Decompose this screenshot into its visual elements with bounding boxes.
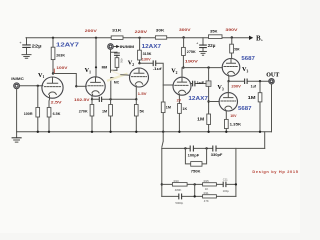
resistor 275K anode V2b xyxy=(182,38,196,68)
capacitor coupling at cathode xyxy=(92,97,136,101)
node SRPP feed xyxy=(207,66,209,131)
svg-text:100µ: 100µ xyxy=(223,189,230,193)
resistor 750K xyxy=(184,147,208,173)
resistor 30K on rail xyxy=(155,29,166,40)
svg-text:100V: 100V xyxy=(56,66,68,70)
svg-text:30K: 30K xyxy=(156,29,165,33)
wire feedback from output xyxy=(264,132,266,149)
svg-text:22µ: 22µ xyxy=(32,44,42,49)
capacitor MM input xyxy=(115,52,120,58)
svg-text:10V: 10V xyxy=(230,114,237,118)
svg-text:R11: R11 xyxy=(204,191,209,195)
node rows link xyxy=(194,184,196,197)
label 225V xyxy=(135,30,148,39)
svg-text:1uf: 1uf xyxy=(251,85,257,89)
node V1 grid xyxy=(37,85,39,87)
component box on divider xyxy=(206,81,211,87)
capacitor 100pF xyxy=(188,146,200,158)
resistor 270K xyxy=(79,99,94,132)
wire RIAA left leg xyxy=(161,148,163,196)
resistor 100R xyxy=(24,86,40,132)
wire V2b anode to V3a grid xyxy=(183,67,222,69)
svg-text:1.5V: 1.5V xyxy=(138,92,148,96)
svg-text:MC: MC xyxy=(114,80,120,84)
svg-text:1K: 1K xyxy=(182,107,187,111)
svg-text:750K: 750K xyxy=(191,169,201,174)
svg-text:1M: 1M xyxy=(248,95,257,100)
B+ arrow xyxy=(249,34,264,42)
wire V1b grid xyxy=(75,85,86,87)
capacitor C11 xyxy=(223,178,230,194)
svg-text:47K: 47K xyxy=(204,199,209,203)
tube V3b (5687 half) xyxy=(217,84,237,119)
wire RIAA row3 xyxy=(162,195,236,197)
svg-text:Design by Hp 2015: Design by Hp 2015 xyxy=(252,169,298,174)
node V2b anode xyxy=(182,66,185,77)
svg-text:225V: 225V xyxy=(135,30,148,34)
switch wiper highlight xyxy=(107,71,128,81)
svg-text:1uF: 1uF xyxy=(197,81,205,85)
ground xyxy=(12,132,21,142)
node rail junctions xyxy=(37,131,262,133)
capacitor 1uf output xyxy=(245,79,257,89)
resistor 1M V1 xyxy=(102,98,112,132)
svg-text:12AX7: 12AX7 xyxy=(188,96,208,102)
tube V3a (5687 half) xyxy=(222,59,248,82)
svg-text:480K: 480K xyxy=(175,188,182,192)
node V2a anode xyxy=(138,62,140,64)
svg-text:C11: C11 xyxy=(223,178,228,182)
svg-text:35K: 35K xyxy=(210,29,218,33)
svg-text:130V: 130V xyxy=(142,57,151,61)
capacitor 330pF xyxy=(211,146,223,157)
svg-text:270K: 270K xyxy=(79,110,88,114)
node 200V rail junction xyxy=(85,29,98,39)
resistor 315K xyxy=(138,38,152,63)
resistor R11 xyxy=(203,191,217,203)
svg-text:R10: R10 xyxy=(174,179,180,183)
wire OUT ground leg xyxy=(271,84,273,132)
svg-text:100pF: 100pF xyxy=(188,153,200,158)
svg-text:31K: 31K xyxy=(112,29,122,33)
wire RIAA row2 xyxy=(162,183,236,185)
svg-text:275K: 275K xyxy=(187,50,196,54)
node V1b cathode 102.5V xyxy=(74,98,93,102)
svg-text:50R: 50R xyxy=(234,47,240,51)
svg-text:263K: 263K xyxy=(56,54,65,58)
svg-text:300V: 300V xyxy=(179,28,191,32)
resistor 6.5K cathode V1a xyxy=(47,108,61,132)
svg-text:.1uf: .1uf xyxy=(153,67,163,71)
wire MC jack to V1 grid xyxy=(20,85,43,87)
output jack OUT xyxy=(266,72,279,84)
svg-text:1.35K: 1.35K xyxy=(230,122,242,126)
wire switch wiper to V2a grid xyxy=(121,74,130,77)
svg-text:IN/MC: IN/MC xyxy=(11,77,24,81)
svg-text:5687: 5687 xyxy=(241,56,255,62)
label 390V xyxy=(225,28,238,39)
capacitor .1uf coupling V2a xyxy=(140,61,174,85)
svg-text:5K: 5K xyxy=(140,110,145,114)
node V1a anode to V1b grid xyxy=(52,72,77,86)
svg-text:OUT: OUT xyxy=(266,72,279,78)
svg-text:1M: 1M xyxy=(166,105,171,109)
capacitor 5000p xyxy=(175,194,183,205)
svg-text:R15: R15 xyxy=(204,179,210,183)
resistor 35K on rail xyxy=(209,29,223,38)
svg-text:6.5K: 6.5K xyxy=(53,112,61,116)
resistor 1M grid V2b xyxy=(161,85,171,132)
svg-text:200V: 200V xyxy=(231,85,241,89)
resistor 47K MM load xyxy=(115,58,124,71)
wire RIAA right leg xyxy=(235,148,237,196)
wire V1b anode riser xyxy=(95,38,97,78)
resistor 50R xyxy=(230,38,240,59)
svg-text:IN/MM: IN/MM xyxy=(120,45,135,49)
label 100V anode V1a xyxy=(54,66,68,73)
resistor 1.35K cathode V3b xyxy=(225,119,242,131)
svg-text:MM: MM xyxy=(102,66,108,70)
svg-text:12AX7: 12AX7 xyxy=(142,44,162,50)
svg-text:390V: 390V xyxy=(225,28,238,32)
node SRPP mid output xyxy=(227,80,229,93)
svg-text:330pF: 330pF xyxy=(211,152,223,157)
svg-text:102.5V: 102.5V xyxy=(74,98,90,102)
svg-text:2V: 2V xyxy=(177,99,182,103)
resistor 1M output load xyxy=(248,80,262,132)
capacitor 22u input rail xyxy=(19,38,42,58)
resistor 31K on rail xyxy=(111,29,123,40)
svg-text:5000p: 5000p xyxy=(175,201,183,205)
resistor R10 xyxy=(172,179,187,192)
wire B+ rail top xyxy=(26,37,249,39)
svg-text:100R: 100R xyxy=(24,112,33,116)
resistor 1M grid V3b xyxy=(197,114,210,125)
resistor R15 xyxy=(203,179,217,191)
svg-text:200V: 200V xyxy=(85,29,98,33)
node V3b grid takeoff xyxy=(207,100,219,102)
svg-text:1M: 1M xyxy=(102,110,107,114)
svg-text:22µ: 22µ xyxy=(208,43,216,48)
input jack IN/MC xyxy=(11,77,24,89)
svg-text:190V: 190V xyxy=(185,60,199,64)
wire ground rail xyxy=(17,131,272,133)
node row2 mid xyxy=(194,183,196,185)
tube V2a (12AX7 half) xyxy=(128,59,149,99)
tube V1a (12AY7 half) xyxy=(38,72,63,108)
svg-text:1M: 1M xyxy=(197,116,205,121)
switch to RIAA network xyxy=(162,132,163,147)
capacitor 1uF V2b out xyxy=(190,81,206,86)
wire MC jack ground leg xyxy=(16,89,18,132)
switch MC contact stub xyxy=(111,78,120,100)
svg-text:12AY7: 12AY7 xyxy=(56,43,79,49)
label 300V xyxy=(179,28,191,39)
capacitor 22u B+ filter xyxy=(196,38,216,55)
svg-text:2.5V: 2.5V xyxy=(51,100,63,104)
svg-text:5687: 5687 xyxy=(238,106,252,112)
tube V1b (12AY7 half) xyxy=(85,67,106,99)
svg-text:315K: 315K xyxy=(143,52,152,56)
resistor 263K xyxy=(51,37,65,74)
resistor 1K cathode V2b xyxy=(178,104,188,132)
input jack IN/MM xyxy=(108,44,135,50)
tube V2b (12AX7 half) xyxy=(171,68,191,104)
wire output node xyxy=(229,80,269,82)
svg-text:47K: 47K xyxy=(120,58,124,63)
resistor 5K cathode V2a xyxy=(134,98,144,132)
wire RIAA feedback row xyxy=(162,147,265,149)
wire MM drop xyxy=(111,50,117,73)
